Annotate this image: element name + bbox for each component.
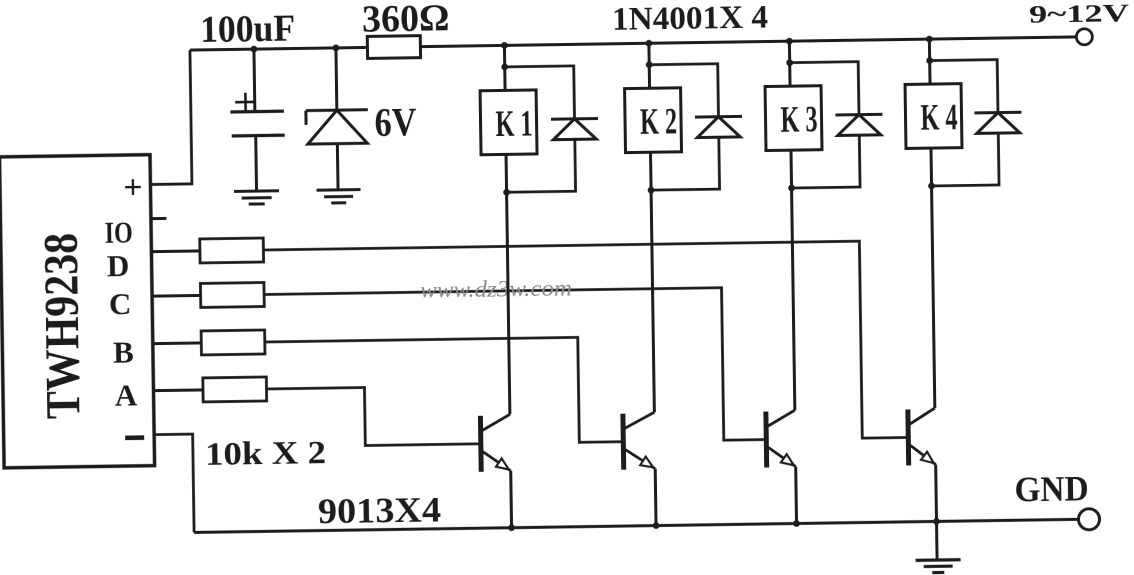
node K1 bottom junction <box>503 189 510 196</box>
wire diode D1 anode return <box>506 139 576 192</box>
wire tee to diode D1 cathode <box>505 66 575 120</box>
wire diode D3 anode return <box>791 135 860 188</box>
transistor Q2 collector <box>625 412 655 428</box>
wire top +V rail right segment <box>420 37 1076 47</box>
diode D1 1N4001 <box>551 119 598 140</box>
svg-text:100uF: 100uF <box>200 8 296 51</box>
node K4 diode tee <box>926 57 933 64</box>
svg-text:B: B <box>113 334 134 369</box>
wire U1 pin D to resistor R2 <box>151 249 199 253</box>
node K2 diode tee <box>646 61 653 68</box>
resistor R3 10k <box>200 282 264 307</box>
wire U1 pin C to resistor R3 <box>152 294 200 298</box>
node K1 diode tee <box>501 63 508 70</box>
wire tee to diode D3 cathode <box>790 62 859 116</box>
wire ground rail <box>194 519 1078 532</box>
transistor Q3 emitter arrow <box>781 454 794 465</box>
ground main <box>916 560 961 573</box>
capacitor C1 100uF polarity plus <box>235 93 256 112</box>
wire to ground symbol <box>935 521 939 560</box>
node Q1 emitter on ground rail <box>508 524 515 531</box>
terminal GND <box>1078 509 1099 530</box>
node cap junction on +V rail <box>250 46 257 53</box>
wire diode D2 anode return <box>650 137 719 190</box>
wire U1 pin A to resistor R5 <box>153 388 202 392</box>
wire tee to diode D4 cathode <box>930 60 998 114</box>
resistor R5 10k <box>203 377 267 402</box>
wire emitter Q3 to ground rail <box>794 467 798 524</box>
node K3 branch on +V rail <box>786 38 793 45</box>
wire zener D5 to ground <box>336 144 340 190</box>
transistor Q4 collector <box>910 408 935 424</box>
wire relay K1 bottom to junction <box>505 154 509 192</box>
diode D2 1N4001 <box>695 116 742 137</box>
svg-text:A: A <box>115 378 139 413</box>
transistor Q2 emitter <box>625 449 655 469</box>
wire relay K3 bottom to junction <box>789 150 793 188</box>
wire from +V rail down to IC plus pin <box>148 50 191 184</box>
wire tee to diode D2 cathode <box>649 64 718 118</box>
svg-text:9~12V: 9~12V <box>1029 0 1129 28</box>
transistor Q2 emitter arrow <box>640 457 653 468</box>
svg-text:GND: GND <box>1014 468 1089 509</box>
svg-text:D: D <box>107 248 130 283</box>
svg-text:K 1: K 1 <box>495 103 533 145</box>
zener diode D5 6V <box>306 110 368 144</box>
wire rail to relay K2 <box>647 43 651 88</box>
wire capacitor C1 to ground <box>254 136 258 191</box>
wire emitter Q1 to ground rail <box>509 471 513 528</box>
ground below D5 <box>317 190 361 204</box>
svg-text:1N4001X 4: 1N4001X 4 <box>612 0 769 38</box>
wire rail to relay K3 <box>788 41 792 86</box>
svg-text:IO: IO <box>104 214 133 249</box>
diode D4 1N4001 <box>974 112 1021 133</box>
wire U1 pin B to resistor R4 <box>153 341 201 345</box>
svg-text:TWH9238: TWH9238 <box>33 233 91 420</box>
transistor Q3 emitter <box>768 447 795 467</box>
wire C row to transistor base <box>264 287 764 447</box>
svg-text:K 4: K 4 <box>920 97 958 139</box>
terminal 9~12V <box>1076 29 1092 45</box>
ground below C1 <box>234 191 279 205</box>
svg-text:K 2: K 2 <box>640 101 678 143</box>
relay K1 coil <box>480 90 537 155</box>
op-amp U1 TWH9238 body <box>0 155 155 468</box>
node Q2 emitter on ground rail <box>653 522 660 529</box>
transistor Q1 emitter <box>483 451 511 471</box>
transistor Q4 9013 base bar <box>905 409 911 465</box>
wire IO stub <box>151 217 166 220</box>
node K3 bottom junction <box>788 185 795 192</box>
wire rail to capacitor C1 <box>252 49 256 111</box>
capacitor C1 100uF <box>230 111 284 136</box>
wire relay K2 bottom to junction <box>649 152 653 190</box>
node K1 branch on +V rail <box>501 42 508 49</box>
node K2 bottom junction <box>648 187 655 194</box>
wire collector riser Q2 <box>651 190 654 412</box>
node K4 branch on +V rail <box>926 36 933 43</box>
wire rail to zener D5 <box>334 48 338 110</box>
wire collector riser Q3 <box>792 188 795 410</box>
wire top +V rail left segment <box>190 47 367 50</box>
transistor Q4 emitter <box>910 445 935 465</box>
transistor Q3 collector <box>768 410 795 426</box>
svg-text:www.dz3w.com: www.dz3w.com <box>420 275 572 302</box>
svg-text:6V: 6V <box>374 99 417 145</box>
wire emitter Q2 to ground rail <box>654 469 658 526</box>
node K4 bottom junction <box>928 183 935 190</box>
resistor R1 360 ohm <box>367 36 420 59</box>
transistor Q4 emitter arrow <box>921 452 934 464</box>
node K3 diode tee <box>786 59 793 66</box>
resistor R2 10k <box>200 238 264 263</box>
wire collector riser Q4 <box>932 186 935 408</box>
transistor Q3 9013 base bar <box>763 412 769 468</box>
wire minus pin to bottom rail <box>154 434 194 533</box>
node Q3 emitter on ground rail <box>793 520 800 527</box>
wire D row to transistor base <box>263 241 906 447</box>
wire relay K4 bottom to junction <box>929 148 933 186</box>
diode D3 1N4001 <box>835 114 882 135</box>
wire collector riser Q1 <box>507 192 510 414</box>
relay K3 coil <box>765 86 822 151</box>
node Q4 emitter on ground rail <box>933 518 940 525</box>
wire rail to relay K4 <box>928 39 932 84</box>
wire diode D4 anode return <box>931 133 999 186</box>
transistor Q2 9013 base bar <box>620 414 626 470</box>
svg-text:C: C <box>109 286 132 321</box>
node K2 branch on +V rail <box>645 40 652 47</box>
svg-text:K 3: K 3 <box>780 99 818 141</box>
relay K2 coil <box>625 88 682 153</box>
transistor Q1 collector <box>482 414 510 430</box>
transistor Q1 9013 base bar <box>478 416 484 472</box>
svg-text:360Ω: 360Ω <box>362 0 450 41</box>
svg-text:+: + <box>123 169 143 206</box>
wire emitter Q4 to ground rail <box>934 465 938 522</box>
svg-text:9013X4: 9013X4 <box>318 489 442 531</box>
wire rail to relay K1 <box>503 45 507 90</box>
wire B row to transistor base <box>265 337 622 447</box>
pin minus of U1 <box>125 435 144 440</box>
svg-text:10k X 2: 10k X 2 <box>205 435 327 473</box>
transistor Q1 emitter arrow <box>496 458 509 469</box>
node zener junction on +V rail <box>332 44 339 51</box>
wire A row to transistor base <box>266 386 478 447</box>
resistor R4 10k <box>201 330 265 355</box>
relay K4 coil <box>905 84 962 149</box>
